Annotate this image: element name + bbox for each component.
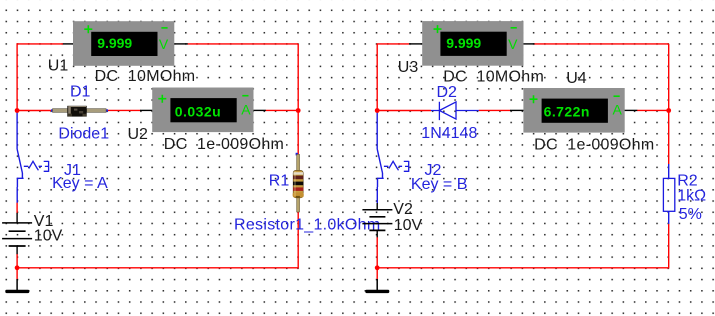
svg-text:DC 10MOhm: DC 10MOhm (443, 69, 544, 86)
refdes label D1 (70, 83, 91, 100)
value label Key = A (52, 175, 108, 192)
svg-text:Resistor1_1.0kOhm: Resistor1_1.0kOhm (234, 216, 381, 233)
svg-text:V: V (159, 36, 169, 52)
svg-text:V: V (508, 36, 518, 52)
refdes label V1 (34, 213, 54, 230)
wire: right rail junction down to R1 top (297, 111, 299, 155)
svg-text:9.999: 9.999 (446, 35, 481, 51)
svg-text:U4: U4 (566, 70, 587, 87)
junction: right circuit left rail node (375, 108, 380, 113)
svg-text:DC 1e-009Ohm: DC 1e-009Ohm (164, 136, 284, 153)
wire: D1 cathode to U2 (106, 109, 140, 111)
svg-text:Key = B: Key = B (411, 176, 467, 193)
wire: V2 minus to bottom junction (376, 237, 378, 268)
value label 1N4148 (421, 125, 477, 142)
svg-text:U1: U1 (48, 57, 69, 74)
svg-text:U3: U3 (398, 59, 419, 76)
svg-text:6.722n: 6.722n (544, 104, 590, 120)
ammeter U2 (140, 88, 266, 133)
refdes label J1 (64, 162, 81, 179)
wire: bottom junction to right ground lead (376, 268, 378, 280)
value label Diode1 (58, 125, 109, 142)
svg-text:DC 10MOhm: DC 10MOhm (95, 68, 196, 85)
battery V2 (362, 203, 392, 237)
svg-text:1kΩ: 1kΩ (677, 187, 706, 204)
value label 1kOhm (677, 187, 706, 204)
refdes label U1 (48, 57, 69, 74)
wire: R2 bottom to bottom rail (377, 224, 669, 268)
value label 5% (679, 206, 702, 223)
wire: U3 right to top-right corner of right loop (534, 44, 669, 164)
svg-text:R1: R1 (269, 172, 290, 189)
wire: D2 to U4 (479, 109, 511, 111)
svg-text:Key = A: Key = A (52, 175, 108, 192)
wire: R1 bottom to bottom rail (17, 212, 299, 268)
svg-text:DC 1e-009Ohm: DC 1e-009Ohm (534, 137, 654, 154)
refdes label U4 (566, 70, 587, 87)
wire: U2 to right rail (266, 109, 299, 111)
refdes label R2 (677, 172, 698, 189)
wire: right circuit top rail (377, 43, 410, 110)
junction: U2 out / R1 top node (296, 108, 301, 113)
refdes label R1 (269, 172, 290, 189)
refdes label J2 (425, 162, 442, 179)
svg-text:10V: 10V (394, 217, 423, 234)
battery V1 (2, 213, 32, 254)
ground (left) (5, 279, 29, 293)
wire: bottom-left junction to ground lead (16, 268, 18, 280)
junction: U4 out / R2 top node (666, 108, 671, 113)
wire: J1 bottom to V1 plus (16, 203, 18, 214)
junction: left rail / D1 node (15, 108, 20, 113)
svg-text:1N4148: 1N4148 (421, 125, 477, 142)
ammeter U4 (510, 88, 637, 133)
value label Resistor1_1.0kOhm (234, 216, 381, 233)
svg-text:U2: U2 (128, 126, 149, 143)
value label 10V (V1) (34, 227, 63, 244)
resistor R2 (663, 164, 674, 224)
switch J1 (17, 112, 48, 203)
wire: V1 minus to bottom-left junction (16, 254, 18, 268)
refdes label U3 (398, 59, 419, 76)
wire: node to D2 anode (377, 110, 431, 112)
svg-text:D2: D2 (437, 84, 458, 101)
value label DC 1e-009Ohm (U2) (164, 136, 284, 153)
wire: left circuit top rail (16, 43, 63, 110)
switch J2 (377, 112, 409, 203)
value label DC 10MOhm (U1) (95, 68, 196, 85)
wire: U1 right to top-right corner of left loop (188, 44, 299, 111)
value label Key = B (411, 176, 467, 193)
svg-text:10V: 10V (34, 227, 63, 244)
value label 10V (V2) (394, 217, 423, 234)
svg-text:D1: D1 (70, 83, 91, 100)
voltmeter U1 (63, 21, 188, 66)
voltmeter U3 (409, 21, 535, 66)
svg-text:A: A (613, 102, 623, 118)
svg-text:5%: 5% (679, 206, 702, 223)
svg-text:A: A (241, 102, 251, 118)
resistor R1 (photo style) (293, 153, 304, 212)
wire: node between D1 anode and left rail (17, 110, 52, 112)
refdes label V2 (393, 201, 413, 218)
diode D2 (1N4148 symbol) (431, 102, 479, 120)
svg-text:9.999: 9.999 (97, 35, 132, 51)
junction: bottom-left ground node (15, 265, 20, 270)
value label DC 10MOhm (U3) (443, 69, 544, 86)
wire: U4 to right rail (637, 109, 669, 111)
svg-text:V2: V2 (393, 201, 413, 218)
diode D1 (photo style) (51, 106, 108, 117)
junction: bottom-right ground node (375, 265, 380, 270)
svg-text:0.032u: 0.032u (175, 104, 221, 120)
refdes label U2 (128, 126, 149, 143)
svg-text:Diode1: Diode1 (58, 125, 109, 142)
ground (right) (365, 279, 389, 293)
refdes label D2 (437, 84, 458, 101)
value label DC 1e-009Ohm (U4) (534, 137, 654, 154)
